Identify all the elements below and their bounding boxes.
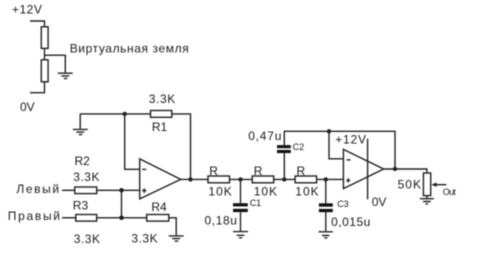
svg-text:3.3K: 3.3K [131,231,158,245]
svg-text:+12V: +12V [335,132,367,146]
svg-text:0,18u: 0,18u [205,214,238,228]
svg-text:Правый: Правый [8,209,62,223]
svg-text:R: R [254,164,263,178]
svg-text:R: R [209,164,218,178]
svg-text:Виртуальная земля: Виртуальная земля [70,42,190,56]
svg-text:+12V: +12V [12,3,42,17]
svg-text:R3: R3 [73,199,89,213]
svg-text:0,47u: 0,47u [248,129,282,143]
svg-text:10K: 10K [254,184,278,198]
svg-text:C2: C2 [293,142,305,152]
svg-text:R: R [297,164,306,178]
svg-text:R1: R1 [152,120,168,134]
svg-text:10K: 10K [295,184,319,198]
svg-text:Out: Out [443,187,457,197]
svg-text:R2: R2 [75,154,91,168]
svg-text:50K: 50K [398,177,422,191]
svg-text:C1: C1 [250,198,262,208]
svg-text:3.3K: 3.3K [73,170,100,184]
svg-text:10K: 10K [208,184,232,198]
svg-text:0V: 0V [20,100,35,114]
svg-text:R4: R4 [151,200,167,214]
svg-text:C3: C3 [337,199,349,209]
svg-text:3.3K: 3.3K [74,232,101,246]
svg-text:Левый: Левый [16,182,60,196]
svg-text:0V: 0V [372,195,387,209]
svg-text:0,015u: 0,015u [331,215,371,229]
svg-text:3.3K: 3.3K [149,92,176,106]
